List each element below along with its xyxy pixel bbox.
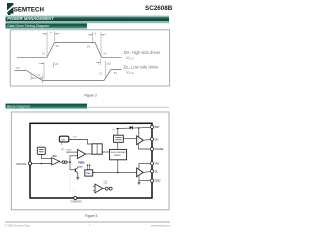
POWER MANAGEMENT bar xyxy=(6,15,170,21)
PWM comparator xyxy=(78,150,86,165)
svg-text:VG-S: VG-S xyxy=(126,56,134,61)
semtech logo glyph xyxy=(7,3,14,16)
svg-text:PWM: PWM xyxy=(78,162,84,165)
svg-text:NON-OVERLAP: NON-OVERLAP xyxy=(111,151,126,154)
svg-text:DH: DH xyxy=(155,137,159,141)
svg-text:tf: tf xyxy=(95,31,97,35)
svg-text:5V: 5V xyxy=(87,45,90,49)
svg-text:VSENSE: VSENSE xyxy=(16,162,27,166)
pin PHASE xyxy=(150,147,153,150)
block diagram internals xyxy=(30,127,152,190)
waveform name labels xyxy=(124,50,161,75)
threshold labels xyxy=(16,30,117,76)
comp/ss hidden route xyxy=(70,174,75,197)
VSENSE wire xyxy=(30,163,52,165)
ref box to EA wire xyxy=(41,154,51,158)
DH waveform xyxy=(17,43,122,58)
td1 dims xyxy=(43,62,45,80)
shift box top to BST wire xyxy=(117,129,119,136)
EA node vertical down xyxy=(69,162,71,170)
reference box (0.8V) xyxy=(37,147,45,154)
IC boundary box xyxy=(30,123,152,198)
EA output wire xyxy=(60,161,63,163)
svg-text:ILIM: ILIM xyxy=(104,183,108,185)
0.8V ref rounded box xyxy=(59,136,68,145)
clamp circles xyxy=(105,187,112,190)
non-overlap down to gate bus xyxy=(117,160,119,173)
svg-text:DH, High side driver: DH, High side driver xyxy=(124,50,161,55)
svg-text:REF: REF xyxy=(61,139,66,141)
ref2 output wire xyxy=(69,140,92,145)
gate bus to DL driver xyxy=(93,171,137,173)
fall time dims xyxy=(92,32,94,44)
pin VSENSE xyxy=(16,162,32,166)
shift box to DH driver xyxy=(123,138,136,140)
svg-text:www.semtech.com: www.semtech.com xyxy=(151,224,170,227)
DL out to pin xyxy=(143,171,152,172)
error amp U1 xyxy=(52,155,60,165)
level shift box xyxy=(114,135,124,142)
soft start BJT Q1 xyxy=(75,167,78,178)
svg-text:0.8V: 0.8V xyxy=(73,137,78,139)
svg-text:OSC: OSC xyxy=(86,173,91,175)
figure 3 frame xyxy=(10,30,170,86)
pin COMP/SS xyxy=(70,196,81,203)
current source arrows above osc xyxy=(88,164,90,169)
svg-text:DL: DL xyxy=(155,169,159,173)
pin VIN xyxy=(150,162,153,165)
light strip under bar xyxy=(6,21,170,23)
dimension lines / arrows xyxy=(31,32,106,84)
svg-text:DL, Low side driver: DL, Low side driver xyxy=(124,65,160,70)
DL waveform xyxy=(15,70,122,81)
svg-text:1V: 1V xyxy=(103,51,106,55)
footer rule xyxy=(5,221,170,223)
svg-text:Figure 3: Figure 3 xyxy=(84,93,97,97)
DH driver top supply xyxy=(138,128,140,137)
svg-text:SC2608B: SC2608B xyxy=(145,5,173,12)
svg-text:VG-S: VG-S xyxy=(126,70,134,75)
svg-text:1V: 1V xyxy=(99,72,102,76)
oscillator box xyxy=(85,170,93,176)
pin BST xyxy=(150,125,153,128)
pin DH xyxy=(150,138,153,141)
svg-text:© 2005 Semtech Corp.: © 2005 Semtech Corp. xyxy=(5,225,31,228)
svg-text:5V: 5V xyxy=(56,44,59,48)
svg-text:VIN: VIN xyxy=(155,162,159,166)
svg-text:Figure 5: Figure 5 xyxy=(85,214,98,218)
VIN wire to DL driver xyxy=(139,163,152,168)
svg-text:Block Diagram: Block Diagram xyxy=(7,105,30,109)
svg-text:POWER MANAGEMENT: POWER MANAGEMENT xyxy=(7,16,54,21)
figure 5 frame xyxy=(11,112,169,210)
td2 dims xyxy=(99,59,101,66)
comparator out to latch xyxy=(86,153,93,155)
bootstrap diode D1 xyxy=(130,126,133,129)
lower amp out wire xyxy=(103,187,105,189)
right side pins xyxy=(150,125,163,183)
svg-text:tr: tr xyxy=(50,30,52,34)
DH return to PHASE xyxy=(138,144,152,149)
svg-text:Gate Drive Timing Diagram: Gate Drive Timing Diagram xyxy=(7,24,49,28)
svg-text:1V: 1V xyxy=(42,52,45,56)
pin GND xyxy=(150,179,153,182)
BJT ground xyxy=(76,178,79,180)
ramp wire xyxy=(66,151,78,153)
BJT base wire xyxy=(70,169,75,171)
non-overlap timing box xyxy=(110,149,127,159)
svg-text:td1: td1 xyxy=(55,62,59,66)
DH out to pin xyxy=(143,138,152,141)
timing diagram xyxy=(15,43,122,81)
svg-text:5V: 5V xyxy=(114,71,117,75)
latch box xyxy=(92,144,102,154)
EA node vertical up to comparator xyxy=(70,156,78,162)
DL driver xyxy=(137,168,144,177)
DL return to GND xyxy=(139,176,152,180)
svg-text:PHASE: PHASE xyxy=(155,147,164,151)
OSC out wire xyxy=(93,171,95,173)
svg-text:GND: GND xyxy=(155,179,161,183)
DL fall dims xyxy=(30,74,32,81)
DH driver xyxy=(137,136,144,145)
svg-text:E/A: E/A xyxy=(53,155,57,158)
svg-text:5V: 5V xyxy=(16,66,19,70)
svg-text:td2: td2 xyxy=(107,61,111,65)
pin DL xyxy=(150,170,153,173)
svg-text:BST: BST xyxy=(155,125,160,129)
svg-text:SEMTECH: SEMTECH xyxy=(14,7,44,14)
svg-text:COMP/SS: COMP/SS xyxy=(70,200,81,203)
EA output clamp circles xyxy=(62,161,67,164)
DL driver ground xyxy=(138,181,141,185)
svg-text:TIMING: TIMING xyxy=(114,155,121,157)
svg-text:RAMP: RAMP xyxy=(66,149,72,152)
BJT collector stub xyxy=(78,166,83,168)
5V to BST wire xyxy=(116,127,152,128)
section bar: Block Diagram xyxy=(6,104,88,109)
latch to non-overlap xyxy=(102,151,109,153)
lower comparator xyxy=(95,181,108,193)
junction dots xyxy=(41,127,140,173)
lower amp input stubs xyxy=(93,185,95,187)
section bar: Gate Drive Timing Diagram xyxy=(6,23,88,28)
rise time dims xyxy=(46,32,48,57)
vertical shift box to non-overlap xyxy=(117,142,119,149)
svg-text:2V: 2V xyxy=(37,73,40,77)
